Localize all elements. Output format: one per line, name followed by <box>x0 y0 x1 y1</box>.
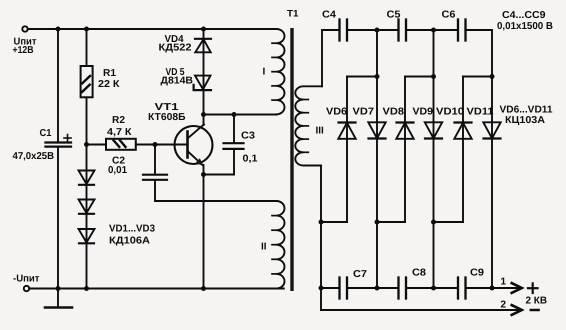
svg-text:VD7: VD7 <box>353 106 375 117</box>
node bus left <box>319 286 324 291</box>
node collector <box>201 112 206 117</box>
svg-text:VD9: VD9 <box>413 106 434 117</box>
svg-text:2: 2 <box>501 300 507 311</box>
svg-text:I: I <box>263 67 266 78</box>
capacitor C5 <box>399 20 407 41</box>
node C2 top <box>153 142 158 147</box>
node top of C1 <box>56 27 61 32</box>
wire output 2 <box>321 309 521 311</box>
wire VD4/VD5 column <box>203 29 205 115</box>
wire VD8 column <box>404 77 406 223</box>
svg-text:C4: C4 <box>322 9 336 20</box>
svg-text:III: III <box>316 126 325 137</box>
terminal -Uпит <box>24 286 29 291</box>
svg-text:C8: C8 <box>412 268 426 279</box>
winding I <box>277 29 285 114</box>
wire emitter to bottom rail <box>203 175 205 289</box>
node stub1 <box>319 220 324 225</box>
wire bottom bus <box>321 287 340 289</box>
capacitor C1 <box>46 143 72 147</box>
svg-text:0,01: 0,01 <box>108 165 127 176</box>
svg-text:-Uпит: -Uпит <box>13 274 40 285</box>
diode VD7 <box>368 122 385 138</box>
node chain C4-C5 <box>375 28 380 33</box>
wire top rail <box>28 28 277 30</box>
node stub2 <box>375 220 380 225</box>
capacitor C2 <box>143 175 167 180</box>
diode VD10 <box>454 123 471 139</box>
wire C2 bottom to winding II top <box>155 181 277 201</box>
wire <box>406 29 458 31</box>
winding II <box>277 201 285 288</box>
svg-text:C9: C9 <box>470 268 484 279</box>
wire R2 to base <box>136 144 187 146</box>
winding III <box>295 86 322 165</box>
diode VD4 <box>195 39 211 53</box>
svg-text:R1: R1 <box>103 68 116 79</box>
wire collector node to winding I bottom <box>204 114 277 116</box>
node bus VD11 <box>490 286 495 291</box>
svg-text:C3: C3 <box>241 131 255 142</box>
capacitor C9 <box>458 278 466 299</box>
wire <box>406 287 458 289</box>
svg-text:22 К: 22 К <box>98 79 120 90</box>
wire C2 upper lead <box>154 145 156 174</box>
node top of R1 <box>84 27 89 32</box>
svg-text:47,0x25В: 47,0x25В <box>13 151 55 162</box>
diode VD2 <box>79 200 95 214</box>
ground <box>57 289 59 308</box>
wire stub VD6 bottom <box>321 221 347 223</box>
node bottom of emitter column <box>201 286 206 291</box>
plus output <box>528 283 538 293</box>
wire C1 lower lead <box>57 148 59 289</box>
wire R1 lower lead <box>86 97 88 144</box>
wire output 1 <box>466 287 522 289</box>
svg-text:Д814В: Д814В <box>161 76 194 87</box>
diode VD3 <box>79 229 95 243</box>
wire winding III top to C4 chain <box>321 30 323 86</box>
svg-text:0,01x1500 В: 0,01x1500 В <box>497 21 553 32</box>
svg-text:2 КВ: 2 КВ <box>526 296 548 307</box>
wire C1 upper lead <box>57 29 59 141</box>
svg-text:1: 1 <box>501 277 507 288</box>
svg-text:II: II <box>261 242 267 253</box>
svg-text:КД522: КД522 <box>159 43 192 54</box>
diode VD9 <box>425 122 442 138</box>
wire <box>466 29 493 31</box>
minus output <box>531 309 539 312</box>
wire stub VD10 bottom <box>434 221 464 223</box>
svg-text:R2: R2 <box>112 115 125 126</box>
wire <box>347 29 399 31</box>
wire stub VD6 top <box>347 76 377 78</box>
wire emitter node to C3 bottom <box>204 174 235 176</box>
svg-text:VD11: VD11 <box>467 106 494 117</box>
node bottom of VD3 <box>84 286 89 291</box>
node bus VD9 <box>431 286 436 291</box>
capacitor C7 <box>340 278 348 299</box>
svg-text:КТ608Б: КТ608Б <box>148 112 186 123</box>
diode VD11 <box>483 122 500 138</box>
wire VD9 column <box>433 30 435 288</box>
svg-text:C7: C7 <box>353 269 367 280</box>
node emitter <box>201 172 206 177</box>
resistor R1 <box>81 66 93 97</box>
svg-text:C6: C6 <box>442 10 456 21</box>
transformer T1 core <box>290 28 293 291</box>
svg-text:4,7 К: 4,7 К <box>107 127 132 138</box>
svg-text:0,1: 0,1 <box>243 154 258 165</box>
svg-text:VD6...VD11: VD6...VD11 <box>500 105 553 116</box>
resistor R2 <box>106 139 136 150</box>
svg-text:VD10: VD10 <box>436 106 464 117</box>
wire VD10 column <box>462 77 464 223</box>
node chain C5-C6 <box>431 28 436 33</box>
diode VD8 <box>396 123 413 139</box>
capacitor C8 <box>399 278 407 299</box>
node stub3 <box>431 220 436 225</box>
wire stub VD8 bottom <box>377 221 405 223</box>
svg-text:КД106А: КД106А <box>109 236 150 247</box>
zener VD5 <box>194 76 211 91</box>
capacitor C4 <box>340 20 348 41</box>
node C3 top <box>232 112 237 117</box>
capacitor C6 <box>458 20 466 41</box>
transistor VT1 <box>175 115 213 175</box>
wire VD1-VD3 chain <box>86 145 88 289</box>
svg-text:C1: C1 <box>40 128 52 139</box>
wire VD6 column <box>346 77 348 223</box>
terminal +Uпит <box>22 26 27 31</box>
svg-text:C5: C5 <box>387 10 401 21</box>
wire winding III bottom column <box>320 166 322 311</box>
svg-text:VD1...VD3: VD1...VD3 <box>109 224 155 235</box>
wire bottom rail <box>29 288 284 290</box>
node bus VD7 <box>375 286 380 291</box>
wire stub VD10 top <box>463 76 492 78</box>
svg-text:+12В: +12В <box>13 45 34 56</box>
diode VD1 <box>79 171 95 185</box>
node base junction <box>84 142 89 147</box>
diode VD6 <box>338 123 355 139</box>
svg-text:T1: T1 <box>287 9 299 20</box>
node top of VD4 <box>201 27 206 32</box>
wire VD11 column <box>491 30 493 288</box>
node bottom of C1/ground <box>56 286 61 291</box>
wire stub VD8 top <box>405 76 434 78</box>
svg-text:КЦ103А: КЦ103А <box>505 115 545 126</box>
wire R1 upper lead <box>86 29 88 66</box>
svg-text:C4...CC9: C4...CC9 <box>502 10 546 21</box>
svg-text:VD6: VD6 <box>326 106 347 117</box>
wire VD7 column <box>376 30 378 288</box>
wire base node to R2 <box>87 144 107 146</box>
svg-text:VD8: VD8 <box>383 106 405 117</box>
wire top chain <box>322 29 340 31</box>
capacitor C3 <box>233 115 235 143</box>
wire <box>347 287 399 289</box>
